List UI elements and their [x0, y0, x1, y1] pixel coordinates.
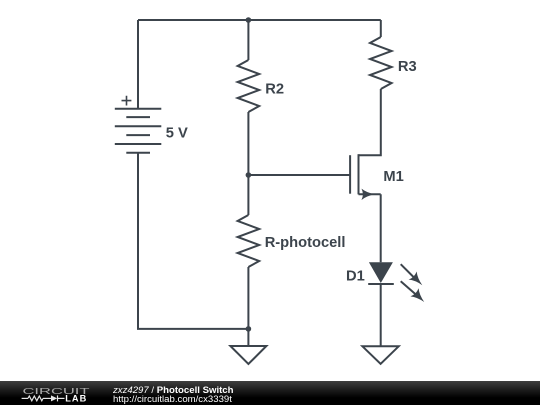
svg-text:R3: R3 — [398, 59, 417, 75]
svg-text:LAB: LAB — [65, 394, 87, 404]
svg-text:D1: D1 — [346, 268, 365, 284]
svg-text:R-photocell: R-photocell — [265, 235, 346, 251]
svg-text:5 V: 5 V — [166, 125, 188, 141]
svg-text:M1: M1 — [383, 169, 403, 185]
svg-text:R2: R2 — [265, 82, 284, 98]
